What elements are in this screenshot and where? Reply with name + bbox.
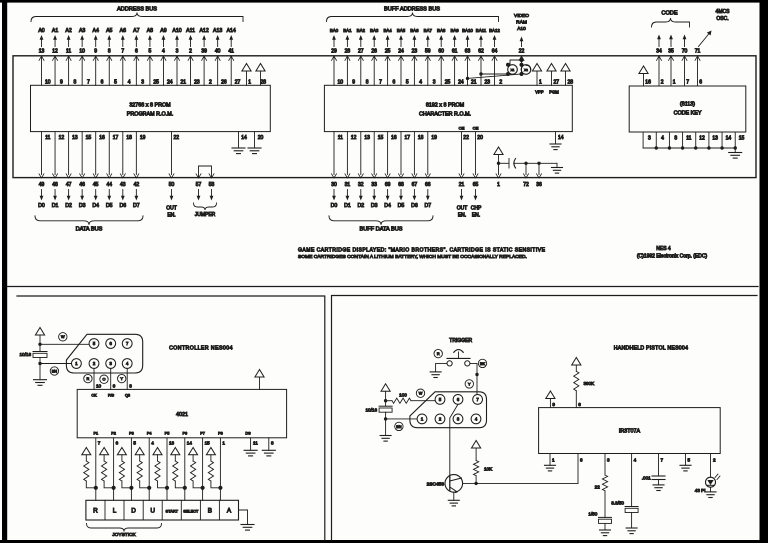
svg-text:30: 30 [331, 182, 337, 188]
node A5 address line [106, 28, 117, 86]
power VCC code key pin 16 [639, 66, 651, 86]
resistor R11 390K [572, 358, 595, 408]
svg-text:SOME CARTRIDGES CONTAIN A LITH: SOME CARTRIDGES CONTAIN A LITHIUM BATTER… [298, 254, 527, 260]
svg-text:9: 9 [60, 80, 63, 86]
svg-text:14: 14 [726, 136, 732, 142]
svg-text:3: 3 [176, 49, 179, 55]
svg-text:PROGRAM R.O.M.: PROGRAM R.O.M. [127, 112, 173, 118]
svg-text:63: 63 [465, 49, 471, 55]
node BA7 buffered address line [424, 28, 436, 86]
svg-text:9: 9 [94, 49, 97, 55]
svg-text:4: 4 [661, 136, 664, 142]
svg-text:5: 5 [149, 49, 152, 55]
svg-text:1: 1 [222, 441, 225, 446]
svg-text:390K: 390K [584, 381, 596, 386]
wire pin1 pistol to rail [386, 418, 417, 420]
node CODE bit 0 [656, 35, 664, 87]
svg-text:23: 23 [485, 80, 491, 86]
node D3 data line (program ROM) [79, 132, 92, 209]
svg-text:BA0: BA0 [330, 28, 339, 33]
svg-text:6: 6 [393, 80, 396, 86]
svg-text:40: 40 [215, 49, 221, 55]
svg-text:12: 12 [59, 135, 65, 141]
node A3 address line [79, 28, 90, 86]
switch SW1 trigger [447, 350, 470, 366]
resistor pull-up R4 [135, 448, 149, 488]
svg-text:46: 46 [79, 182, 85, 188]
wire pistol panel border [332, 296, 758, 541]
wire P2 output [111, 432, 118, 501]
svg-text:19: 19 [140, 135, 146, 141]
svg-text:41: 41 [228, 49, 234, 55]
label BUFF ADDRESS BUS [327, 7, 499, 22]
svg-text:D6: D6 [411, 203, 418, 209]
svg-text:17: 17 [405, 135, 411, 141]
node D0 data line (program ROM) [38, 132, 50, 209]
wire pin5 to supply [40, 343, 89, 345]
power VCC pin 28 PROM [256, 64, 266, 86]
svg-text:5: 5 [114, 80, 117, 86]
svg-text:OUT: OUT [457, 206, 468, 212]
svg-text:70: 70 [682, 49, 688, 55]
svg-text:BUFF ADDRESS BUS: BUFF ADDRESS BUS [384, 7, 440, 13]
svg-text:7: 7 [98, 441, 101, 446]
svg-text:20: 20 [477, 135, 483, 141]
node BK trigger wire [478, 359, 486, 367]
svg-text:43: 43 [120, 182, 126, 188]
switch array buttons [86, 500, 239, 520]
svg-text:67: 67 [412, 182, 418, 188]
svg-text:25: 25 [385, 49, 391, 55]
svg-text:8: 8 [74, 80, 77, 86]
node BD7 buffered data line [424, 132, 437, 209]
svg-text:D3: D3 [371, 203, 378, 209]
IC U5 IR3T07A [539, 408, 721, 454]
resistor pull-up R6 [171, 448, 185, 488]
node A2 address line [65, 28, 76, 86]
svg-text:A2: A2 [65, 28, 71, 34]
svg-text:W: W [419, 392, 423, 396]
svg-text:24: 24 [458, 80, 464, 86]
svg-text:Y: Y [468, 382, 471, 386]
svg-text:BA3: BA3 [370, 28, 379, 33]
svg-text:4: 4 [151, 441, 154, 446]
svg-text:D4: D4 [384, 203, 391, 209]
node OUT EN (char ROM pin 22) [457, 126, 469, 219]
node BA5 buffered address line [397, 28, 409, 86]
svg-text:45: 45 [93, 182, 99, 188]
svg-text:BA7: BA7 [424, 28, 433, 33]
svg-text:8: 8 [271, 441, 274, 446]
svg-text:71: 71 [695, 49, 701, 55]
svg-text:23: 23 [412, 49, 418, 55]
svg-text:D7: D7 [424, 203, 431, 209]
svg-text:VPP: VPP [535, 90, 544, 95]
wire P/S pin 9 [111, 368, 116, 389]
svg-text:22: 22 [519, 49, 525, 55]
svg-text:36: 36 [536, 182, 542, 188]
svg-text:18: 18 [418, 135, 424, 141]
node A13 address line [213, 28, 227, 86]
svg-text:P1: P1 [93, 432, 98, 436]
svg-text:29: 29 [331, 49, 337, 55]
svg-text:21: 21 [181, 80, 187, 86]
svg-text:BA6: BA6 [410, 28, 419, 33]
wire CK pin 10 [94, 368, 102, 389]
svg-text:32768 x 8 PROM: 32768 x 8 PROM [129, 103, 171, 109]
ground decoupling cap [552, 163, 563, 173]
svg-text:10: 10 [45, 80, 51, 86]
ground pin 14 PROM [232, 132, 247, 154]
svg-text:9: 9 [552, 402, 555, 407]
svg-text:OSC.: OSC. [716, 16, 728, 22]
power VCC pistol [381, 384, 390, 406]
svg-text:16: 16 [99, 135, 105, 141]
svg-text:39: 39 [201, 49, 207, 55]
svg-text:CK: CK [91, 394, 97, 398]
svg-text:BA9: BA9 [450, 28, 459, 33]
svg-text:9: 9 [113, 384, 116, 389]
svg-text:(8113): (8113) [680, 102, 695, 108]
node BA6 buffered address line [410, 28, 422, 86]
node D6 data line (program ROM) [119, 132, 132, 209]
svg-text:49: 49 [39, 182, 45, 188]
resistor R12 22 [595, 454, 610, 518]
svg-text:14: 14 [187, 441, 193, 446]
node BN wire label [50, 367, 58, 375]
connector J3 pistol plug [410, 392, 487, 428]
svg-text:59: 59 [425, 49, 431, 55]
svg-text:OE: OE [459, 126, 465, 131]
svg-text:2: 2 [499, 80, 502, 86]
svg-text:27: 27 [358, 49, 364, 55]
wire P7 output [200, 432, 210, 501]
svg-text:15: 15 [739, 136, 745, 142]
svg-text:8: 8 [580, 458, 583, 463]
ground controller supply [34, 380, 47, 386]
node 72 [523, 162, 529, 188]
svg-text:A12: A12 [199, 28, 208, 34]
node BD5 buffered data line [398, 132, 411, 209]
svg-text:12: 12 [699, 136, 705, 142]
svg-text:JUMPER: JUMPER [195, 212, 216, 218]
svg-text:1/50: 1/50 [588, 512, 597, 517]
capacitor C6 .001 [642, 454, 665, 491]
node BA0 buffered address line [330, 28, 343, 86]
svg-text:X1: X1 [511, 68, 515, 72]
svg-text:27: 27 [554, 80, 560, 86]
node D2 data line (program ROM) [65, 132, 78, 209]
power VCC pin 9 [546, 391, 556, 408]
node CODE bit 2 [682, 35, 690, 87]
svg-text:33: 33 [371, 182, 377, 188]
svg-text:P7: P7 [200, 432, 205, 436]
svg-text:5: 5 [133, 441, 136, 446]
svg-text:2: 2 [661, 80, 664, 86]
svg-text:61: 61 [452, 49, 458, 55]
svg-text:TRIGGER: TRIGGER [449, 338, 472, 344]
svg-text:14: 14 [558, 135, 564, 141]
label JOYSTICK [87, 524, 162, 538]
svg-text:34: 34 [656, 49, 662, 55]
svg-text:6: 6 [699, 80, 702, 86]
svg-text:BA8: BA8 [437, 28, 446, 33]
svg-text:10: 10 [79, 49, 85, 55]
label TRIGGER [449, 338, 472, 344]
svg-text:A11: A11 [186, 28, 195, 34]
svg-text:START: START [166, 509, 179, 514]
power PGM pin 27 char ROM [547, 64, 559, 95]
svg-text:BA4: BA4 [383, 28, 392, 33]
wire P6 output [182, 432, 192, 501]
svg-text:BA12: BA12 [489, 28, 500, 33]
svg-text:3: 3 [648, 136, 651, 142]
power VPP pin 1 char ROM [532, 64, 543, 95]
node BA10 buffered address line [462, 28, 477, 86]
svg-text:42: 42 [134, 182, 140, 188]
svg-text:A10: A10 [517, 26, 526, 32]
node R wire label [84, 374, 92, 382]
svg-text:44: 44 [106, 182, 112, 188]
svg-text:64: 64 [492, 49, 498, 55]
svg-text:PGM: PGM [549, 90, 559, 95]
svg-text:BA5: BA5 [397, 28, 406, 33]
svg-text:12: 12 [52, 49, 58, 55]
svg-text:28: 28 [568, 80, 574, 86]
power VCC 4021 [255, 370, 264, 390]
resistor pull-up R1 [82, 448, 96, 488]
label CONTROLLER NES004 [169, 346, 233, 352]
IC U4 4021 shift register [77, 389, 286, 437]
svg-text:13: 13 [712, 136, 718, 142]
svg-text:66: 66 [425, 182, 431, 188]
resistor pull-up R7 [189, 448, 203, 488]
node BN pistol wire [395, 422, 403, 430]
svg-text:D: D [131, 508, 136, 515]
wire bus ring (top rail / bottom rail) [13, 56, 756, 178]
ground pin 5 [680, 454, 691, 471]
svg-text:P8: P8 [218, 432, 223, 436]
svg-text:A3: A3 [79, 28, 85, 34]
wire section divider [7, 286, 758, 288]
node BD0 buffered data line [331, 132, 343, 209]
capacitor C2 10/16 [20, 352, 48, 380]
svg-text:CHARACTER R.O.M.: CHARACTER R.O.M. [419, 112, 471, 118]
svg-text:19: 19 [431, 135, 437, 141]
capacitor C4 1/50 [588, 512, 611, 536]
svg-text:13: 13 [364, 135, 370, 141]
wire Q8 pin 3 [127, 368, 132, 389]
svg-text:3: 3 [433, 80, 436, 86]
resistor pull-up R2 [100, 448, 114, 488]
wire controller panel border [17, 296, 325, 540]
svg-text:4: 4 [634, 458, 637, 463]
wire gate input from pin 23 [481, 73, 508, 75]
node BA2 buffered address line [357, 28, 369, 86]
svg-text:3: 3 [141, 80, 144, 86]
svg-text:62: 62 [478, 49, 484, 55]
wire P8 output [218, 432, 225, 501]
svg-text:A1: A1 [52, 28, 58, 34]
svg-text:9: 9 [352, 80, 355, 86]
power VCC controller [35, 328, 44, 352]
svg-text:NES 4: NES 4 [656, 246, 671, 252]
svg-text:4: 4 [128, 80, 131, 86]
svg-text:3.3/50: 3.3/50 [611, 501, 624, 506]
svg-text:SELECT: SELECT [183, 509, 199, 514]
svg-text:14: 14 [241, 135, 247, 141]
svg-text:5: 5 [406, 80, 409, 86]
svg-text:11: 11 [338, 135, 343, 141]
svg-text:11: 11 [66, 49, 71, 55]
svg-text:57: 57 [196, 182, 202, 188]
svg-text:22: 22 [463, 135, 469, 141]
svg-text:D1: D1 [52, 203, 59, 209]
node Y wire label [118, 374, 126, 382]
svg-text:43 PI: 43 PI [695, 488, 706, 493]
node D4 data line (program ROM) [92, 132, 105, 209]
wire collector to pin 8 [463, 482, 578, 485]
svg-text:7: 7 [686, 80, 689, 86]
svg-text:13: 13 [39, 49, 45, 55]
wire button A to ground [239, 510, 255, 530]
node W wire label [59, 333, 67, 341]
ground transistor emitter [448, 492, 459, 506]
svg-text:50: 50 [169, 182, 175, 188]
wire trigger right to pin 7 [470, 363, 479, 394]
svg-text:Q8: Q8 [125, 394, 130, 398]
node A10 address line [172, 28, 186, 86]
jumper J1 [194, 166, 217, 218]
node D1 data line (program ROM) [52, 132, 65, 209]
node A6 address line [120, 28, 131, 86]
node BA4 buffered address line [383, 28, 395, 86]
svg-text:8192 x 8 PROM: 8192 x 8 PROM [426, 103, 465, 109]
svg-text:4: 4 [419, 80, 422, 86]
node BD6 buffered data line [411, 132, 424, 209]
svg-text:2: 2 [209, 80, 212, 86]
svg-text:P6: P6 [182, 432, 187, 436]
photodiode D1 43 PI [695, 454, 720, 498]
label HANDHELD PISTOL NES004 [614, 346, 688, 352]
label DATA BUS [35, 216, 143, 233]
svg-text:22: 22 [595, 485, 601, 490]
svg-text:3: 3 [607, 458, 610, 463]
svg-text:B: B [208, 508, 212, 515]
svg-text:24: 24 [167, 80, 173, 86]
svg-text:(C)1992 Electronix Corp. (EDC): (C)1992 Electronix Corp. (EDC) [637, 254, 708, 260]
svg-text:D0: D0 [38, 203, 45, 209]
node BD3 buffered data line [371, 132, 384, 209]
node BA11 buffered address line [476, 28, 491, 86]
svg-text:11: 11 [45, 135, 50, 141]
resistor pull-up R5 [153, 448, 167, 488]
svg-text:BN: BN [396, 425, 402, 429]
svg-text:EN.: EN. [167, 213, 175, 219]
svg-text:D4: D4 [92, 203, 99, 209]
node BA9 buffered address line [450, 28, 463, 86]
svg-text:X2: X2 [524, 68, 528, 72]
svg-text:D6: D6 [119, 203, 126, 209]
svg-text:D2: D2 [357, 203, 364, 209]
node A8 address line [147, 28, 159, 86]
svg-text:24: 24 [398, 49, 404, 55]
IC U3 (8113) CODE KEY [629, 86, 746, 132]
svg-text:15: 15 [378, 135, 384, 141]
capacitor C1 decoupling [499, 159, 558, 169]
svg-text:D1: D1 [344, 203, 351, 209]
svg-text:DS: DS [245, 432, 251, 436]
node BD2 buffered data line [357, 132, 370, 209]
wire pin1 to ground rail [40, 363, 72, 365]
node BD4 buffered data line [384, 132, 397, 209]
svg-text:100: 100 [399, 393, 407, 398]
node Y wire label pistol [465, 380, 473, 388]
node A12 address line [199, 28, 212, 86]
svg-text:P2: P2 [111, 432, 116, 436]
svg-text:P/S: P/S [108, 394, 115, 398]
svg-text:D5: D5 [106, 203, 113, 209]
svg-text:25: 25 [445, 80, 451, 86]
svg-text:RAM: RAM [516, 20, 527, 26]
svg-text:28: 28 [345, 49, 351, 55]
node CODE bit 1 [668, 35, 676, 87]
wire gate output to pin 21 [468, 74, 522, 78]
svg-text:32: 32 [358, 182, 364, 188]
svg-text:10: 10 [338, 80, 344, 86]
svg-text:CHP: CHP [471, 206, 482, 212]
svg-text:CODE: CODE [661, 11, 677, 17]
node A1 address line [52, 28, 63, 86]
node BA12 buffered address line [489, 28, 502, 86]
svg-text:A14: A14 [227, 28, 236, 34]
gate X2 inverter [520, 63, 531, 76]
svg-text:BN: BN [52, 369, 58, 373]
svg-text:5: 5 [688, 458, 691, 463]
svg-text:8: 8 [674, 136, 677, 142]
resistor pull-up R3 [117, 448, 131, 488]
node CHP EN (char ROM pin 20) [471, 126, 483, 219]
node A14 address line [227, 28, 241, 86]
power VCC pin 28 char ROM [561, 64, 573, 86]
power VPP pin 1 PROM [242, 64, 251, 86]
svg-text:A0: A0 [38, 28, 44, 34]
svg-text:10K: 10K [484, 467, 493, 472]
wire P1 output [93, 432, 100, 501]
svg-text:15: 15 [86, 135, 92, 141]
svg-text:D2: D2 [65, 203, 72, 209]
svg-text:68: 68 [398, 182, 404, 188]
node BD1 buffered data line [344, 132, 357, 209]
svg-text:U: U [150, 508, 155, 515]
svg-text:16: 16 [645, 80, 651, 86]
svg-text:22: 22 [174, 135, 180, 141]
svg-text:13: 13 [72, 135, 78, 141]
note title NES 4 [637, 246, 708, 260]
wire pin 8 ground [262, 438, 275, 456]
node A7 address line [133, 28, 144, 86]
svg-text:12: 12 [351, 135, 357, 141]
svg-text:58: 58 [209, 182, 215, 188]
svg-text:A13: A13 [213, 28, 222, 34]
svg-text:GAME CARTRIDGE DISPLAYED: "MAR: GAME CARTRIDGE DISPLAYED: "MARIO BROTHER… [298, 248, 546, 254]
svg-text:7: 7 [121, 49, 124, 55]
svg-text:72: 72 [523, 182, 529, 188]
svg-text:A7: A7 [133, 28, 139, 34]
svg-text:BA2: BA2 [357, 28, 366, 33]
svg-text:JOYSTICK: JOYSTICK [112, 532, 136, 538]
svg-text:A10: A10 [172, 28, 181, 34]
